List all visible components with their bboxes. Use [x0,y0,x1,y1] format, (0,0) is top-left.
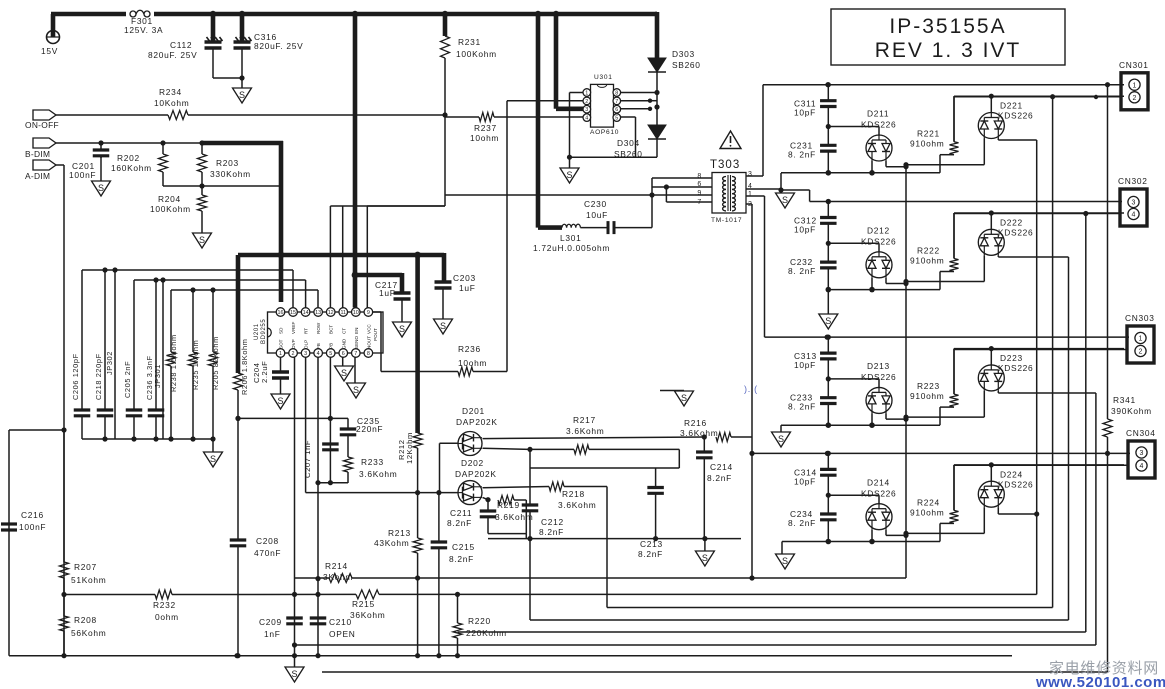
wire T303 pin9 [652,194,712,196]
resistor R220 [453,595,462,656]
svg-text:56Kohm: 56Kohm [71,628,106,638]
junction pin10/C217 [352,272,359,279]
svg-text:8.2nF: 8.2nF [707,473,732,483]
junction R207/R208 [61,592,66,597]
capacitor C216 [1,524,17,530]
connector CN302 [1120,189,1147,226]
wire R223 bottom bend [940,406,954,408]
junction mid C314/C234 [826,493,831,498]
svg-text:R341: R341 [1113,395,1136,405]
wire D202 lower out [483,497,489,499]
junction D223 top [989,346,994,351]
junction C312 rail [826,199,831,204]
svg-text:C208: C208 [256,536,279,546]
svg-text:SENO: SENO [354,336,359,349]
junction T303 pin6/7 [664,184,669,189]
transistor D212 KDS226 [866,252,892,278]
wire D202 upper out R218 row [483,487,550,488]
junction sense bus 1036.7 [1034,511,1039,516]
wire C112 drop [211,14,216,41]
svg-text:IP-35155A: IP-35155A [889,15,1006,38]
svg-text:R221: R221 [917,129,940,139]
resistor R237 [479,113,494,122]
svg-text:3.6Kohm: 3.6Kohm [566,426,604,436]
svg-text:2: 2 [585,99,588,105]
svg-text:14: 14 [303,310,309,316]
svg-text:D224: D224 [1000,469,1023,479]
svg-text:10pF: 10pF [794,108,816,118]
svg-text:S: S [399,324,405,334]
wire R341 column [1107,85,1109,419]
svg-text:KDS226: KDS226 [998,228,1033,238]
wire pin3 column [305,358,307,493]
title block frame [831,9,1065,65]
wire nest L8 [322,453,1108,672]
svg-text:1.72uH.0.005ohm: 1.72uH.0.005ohm [533,243,610,253]
wire ON-OFF net [56,114,445,116]
diode D202 DAP202K [458,481,482,505]
svg-text:R220: R220 [468,616,491,626]
svg-text:4: 4 [317,351,320,357]
wire pin6 gnd [342,358,344,367]
svg-text:OPEN: OPEN [329,629,356,639]
capacitor C235 [340,418,357,434]
junction nest L6 left [292,642,297,647]
svg-text:R233: R233 [361,457,384,467]
junction cap bank rail [102,436,195,441]
junction C230/T303 pin9 [649,192,654,197]
transistor D211 KDS226 [866,135,892,161]
diode D304 [648,125,666,139]
wire main bottom rail [9,655,1012,657]
svg-text:JP301: JP301 [153,364,162,388]
wire C216 branch [9,430,64,656]
wire D214 bottom rail [782,523,940,541]
junction bottom rail 2 [826,287,875,293]
capacitor C314 [820,469,837,475]
wire U301 gnd row [570,156,658,158]
svg-text:D201: D201 [462,406,485,416]
junction C311 top [826,82,831,87]
wire R221 bottom bend [940,154,954,156]
svg-text:R207: R207 [74,562,97,572]
junction bottom rail 4 [826,539,875,545]
svg-text:910ohm: 910ohm [910,139,944,149]
capacitor C213 [647,488,664,539]
15V source V1 [47,31,60,44]
wire U301 pin3 thick [556,14,583,109]
wire C211-C213 rail [488,538,741,540]
wire R222 bottom bend [940,271,954,273]
junction D304 top [654,104,659,109]
wire D214 out right [886,530,906,536]
svg-text:3: 3 [304,351,307,357]
svg-text:CT: CT [341,328,346,334]
svg-text:R202: R202 [117,153,140,163]
wire D213 bottom rail [781,407,940,425]
wire nest L4 [530,257,1069,620]
svg-text:8.2nF: 8.2nF [447,518,472,528]
wire T303 pin7 [666,187,712,202]
wire B3 gnd [780,425,782,432]
junction C211-C213 rail [527,536,707,541]
wire D222 top feed [990,213,992,230]
resistor R214 [329,574,352,583]
svg-text:10Kohm: 10Kohm [154,98,189,108]
svg-text:1nF: 1nF [264,629,281,639]
svg-text:8.2nF: 8.2nF [449,554,474,564]
svg-text:OLP: OLP [304,340,309,349]
wire pin7 gnd [354,358,356,384]
junction C218 top [102,267,107,272]
svg-text:R223: R223 [917,381,940,391]
capacitor C311 [820,101,837,107]
svg-text:1: 1 [279,351,282,357]
svg-text:S: S [353,385,359,395]
wire C201 bottom [100,156,102,181]
svg-text:POUT: POUT [373,328,378,341]
svg-text:NOUT: NOUT [366,336,371,349]
capacitor C231 [820,127,837,173]
svg-text:L301: L301 [560,233,581,243]
IC U201 top pin names [279,322,372,334]
ground G2 below C201 [92,181,111,196]
junction U301 outs [648,99,652,112]
svg-text:DAP202K: DAP202K [455,469,497,479]
wire D224 top feed [990,465,992,482]
svg-text:6: 6 [342,351,345,357]
svg-text:R224: R224 [917,497,940,507]
svg-text:4: 4 [585,116,588,122]
wire pin4 column [317,358,319,656]
svg-text:S: S [199,235,205,245]
junction gnd rail [210,436,215,441]
wire pin2 column [294,358,296,595]
transformer T303 right winding [732,177,735,211]
wire D304 bottom [656,139,658,157]
junction mid C311/C231 [826,124,831,129]
inductor L301 [562,224,580,227]
ground B2 return [819,314,838,329]
wire D222 out left [906,255,984,281]
svg-text:125V. 3A: 125V. 3A [124,25,163,35]
svg-text:B-DIM: B-DIM [25,149,50,159]
junction CN301 rail [825,82,1110,87]
wire nest L5 [458,214,1086,633]
connector CN304 [1128,441,1155,478]
svg-text:KDS226: KDS226 [998,479,1033,489]
wire cap bank bottom rail [82,438,213,440]
wire R237 to pin4 [445,116,583,118]
junction JP301 top [160,277,165,282]
wire R219 right loop [488,500,526,539]
wire B-DIM net [56,142,202,144]
junction R232 row [292,592,460,597]
resistor R234 [168,111,188,120]
wire pin15 feed [292,270,294,308]
resistor R219 [498,496,514,505]
svg-text:3: 3 [1140,450,1144,457]
transistor D223 KDS226 [978,365,1004,391]
svg-text:2: 2 [1139,349,1143,356]
op-amp U301 body [591,84,614,127]
wire C209 column [294,594,296,667]
capacitor C206 [74,410,91,439]
resistor R204 [198,186,207,233]
wire pin1 to C204 [280,358,282,373]
svg-text:S: S [778,434,784,444]
ground G6 pin7 [347,383,366,398]
capacitor C233 [820,379,837,425]
svg-text:51Kohm: 51Kohm [71,575,106,585]
svg-text:S: S [782,556,788,566]
wire FB comp top [238,417,348,419]
wire T303 pin4 [746,173,781,192]
svg-text:9: 9 [367,310,370,316]
wire CN304 pin4 row [954,464,1128,466]
capacitor C218 [97,410,114,439]
svg-text:KDS226: KDS226 [861,120,896,130]
svg-text:3: 3 [748,171,753,178]
junction U301 pin1 gnd [567,155,572,160]
wire pin3 to D202 [306,492,458,494]
wire D201 lower out R217 row [483,448,575,449]
svg-text:C215: C215 [452,542,475,552]
wire T303 pin6 [652,186,712,188]
svg-text:KDS226: KDS226 [998,111,1033,121]
svg-text:REV 1. 3 IVT: REV 1. 3 IVT [875,39,1022,62]
svg-text:S: S [291,669,297,679]
resistor R203 [198,143,207,186]
svg-text:3.6Kohm: 3.6Kohm [359,469,397,479]
svg-text:S: S [341,368,347,378]
wire D221 top feed [990,96,992,113]
svg-text:8: 8 [697,173,702,180]
svg-text:A-DIM: A-DIM [25,171,50,181]
svg-text:8. 2nF: 8. 2nF [788,518,816,528]
svg-text:R217: R217 [573,415,596,425]
junction C314 top [826,451,831,456]
svg-text:D221: D221 [1000,101,1023,111]
svg-text:R205 82Kohm: R205 82Kohm [211,336,220,390]
wire pin13 feed [317,290,319,308]
ground G5 pin6 [335,366,354,381]
junction T303 pin4 gnd [778,187,783,192]
resistor R236 [458,367,473,376]
fuse F301 [126,10,154,17]
svg-text:470nF: 470nF [254,548,281,558]
resistor R216 [716,433,731,442]
wire T303 pin8 [652,177,712,179]
wire R232 row [64,140,1037,595]
junction thick rail [278,252,421,259]
wire D221 out left [906,139,984,165]
wire C203 gnd [442,288,444,319]
svg-text:C112: C112 [170,40,192,50]
wire D211 out right [886,161,906,167]
svg-text:R231: R231 [458,37,481,47]
wire R224 bottom bend [940,522,954,524]
transistor D224 KDS226 [978,481,1004,507]
svg-text:15V: 15V [41,46,58,56]
wire D213 out right [886,413,906,419]
ground G14 floating [675,391,694,406]
svg-text:5: 5 [615,116,618,122]
svg-text:16: 16 [278,310,284,316]
svg-text:S: S [825,316,831,326]
wire R206 to C208 [237,390,239,540]
wire D212 out right [886,278,906,284]
svg-text:8: 8 [367,351,370,357]
wire D223 out left [906,391,984,417]
svg-text:10uF: 10uF [586,210,608,220]
svg-text:U201: U201 [254,323,260,340]
resistor R221 [950,96,959,155]
transistor D222 KDS226 [978,229,1004,255]
junction C236 top [153,277,158,282]
svg-text:10pF: 10pF [794,476,816,486]
svg-text:D214: D214 [867,477,890,487]
junction B4 rail [825,451,1110,456]
capacitor C211 [480,500,497,534]
svg-text:RT: RT [304,328,309,334]
svg-text:8.2nF: 8.2nF [638,549,663,559]
capacitor C204 [272,372,289,378]
svg-text:4: 4 [1132,212,1136,219]
svg-text:2.2uF: 2.2uF [260,361,269,383]
capacitor C207 [322,444,339,450]
wire pin5 column [329,358,331,483]
wire D224 out to bus [998,507,1036,514]
svg-text:U301: U301 [594,74,613,81]
wire B4 gnd [781,542,783,555]
junction mid rail L1 [415,575,755,580]
ground G9 U301 [560,157,579,183]
svg-text:12Kohm: 12Kohm [405,432,414,464]
wire C312 mid [827,223,829,243]
junction D303/pin8 [654,90,659,95]
resistor R212 [413,433,422,448]
svg-text:820uF. 25V: 820uF. 25V [254,41,303,51]
svg-text:GND: GND [341,338,346,349]
svg-text:S: S [440,321,446,331]
svg-text:AOP610: AOP610 [590,129,619,136]
svg-text:T303: T303 [710,159,740,171]
wire B4 rail [752,452,1130,454]
wire T303 pin1 down [746,196,765,337]
wire pin10 thick feed [353,14,358,308]
svg-text:2: 2 [1133,95,1137,102]
resistor R215 [356,590,379,599]
svg-text:8. 2nF: 8. 2nF [788,149,816,159]
svg-text:S: S [210,454,216,464]
wire R217 right to C213 [530,449,679,487]
svg-text:0ohm: 0ohm [155,612,179,622]
wire pin9 POUT to R236 [373,312,458,372]
svg-text:10pF: 10pF [794,225,816,235]
capacitor C112 [205,37,223,48]
svg-text:CN301: CN301 [1119,60,1149,70]
wire C311 column [827,85,829,101]
svg-text:D223: D223 [1000,353,1023,363]
svg-text:SB260: SB260 [672,60,701,70]
wire R218 right [564,487,607,608]
svg-text:D213: D213 [867,361,890,371]
wire CN303 pin2 row [954,349,1127,351]
svg-text:CN304: CN304 [1126,428,1156,438]
junction B4 rail tap [749,451,754,456]
svg-text:JP302: JP302 [105,351,114,375]
wire nest L3 [607,97,1053,608]
resistor R231 [441,36,450,58]
svg-text:C212: C212 [541,517,564,527]
svg-text:8. 2nF: 8. 2nF [788,266,816,276]
resistor R205 [209,290,218,439]
junction C212 top [527,447,532,452]
resistor R235 [189,290,198,439]
resistor R233 [344,435,353,483]
svg-text:C206 120pF: C206 120pF [71,353,80,400]
junction bottom rail 3 [826,422,875,428]
wire D224 out left [906,507,984,533]
svg-text:8.2nF: 8.2nF [539,527,564,537]
svg-text:2: 2 [292,351,295,357]
wire D303 to pins [621,72,657,125]
junction C313 top [826,335,831,340]
wire D213 top feed [828,379,879,388]
junction R204 top [199,183,204,188]
wire D221 out to bus [998,139,1036,141]
svg-text:C209: C209 [259,617,282,627]
svg-text:3: 3 [1132,200,1136,207]
resistor R224 [950,465,959,524]
junction C215 bottom rail [436,653,441,658]
svg-text:1: 1 [748,191,753,198]
wire FB comp bottom [318,482,348,484]
wire C112 bottom [213,48,242,78]
junction mid C313/C233 [826,376,831,381]
junction D221 top [989,94,994,99]
wire B2 rail [810,201,1122,203]
svg-text:10ohm: 10ohm [458,358,487,368]
svg-text:KDS226: KDS226 [861,488,896,498]
wire T303 pin2 down [746,204,752,578]
wire cap bank feed row2 [134,280,306,410]
resistor R223 [950,349,959,408]
transformer T303 core [727,175,729,211]
svg-text:CN303: CN303 [1125,313,1155,323]
svg-text:KDS226: KDS226 [861,237,896,247]
wire main 15V rail [51,14,657,37]
wire C218 column [104,270,106,410]
svg-text:1uF: 1uF [379,288,396,298]
IC U201 top pins 16-9 [276,308,372,317]
svg-text:12: 12 [328,310,334,316]
wire A-DIM net [56,165,64,656]
capacitor C209 [286,618,303,624]
wire U301 pin1 [570,93,584,158]
svg-text:100Kohm: 100Kohm [150,204,191,214]
wire R236 right up [473,255,507,372]
svg-text:390Kohm: 390Kohm [1111,406,1152,416]
junction node 906 block4 [903,531,908,538]
wire R231 thick stub [443,14,448,36]
svg-text:R222: R222 [917,246,940,256]
svg-text:R218: R218 [562,489,585,499]
warning symbol [720,131,741,149]
svg-text:10pF: 10pF [794,360,816,370]
wire JP302 column [114,270,116,439]
